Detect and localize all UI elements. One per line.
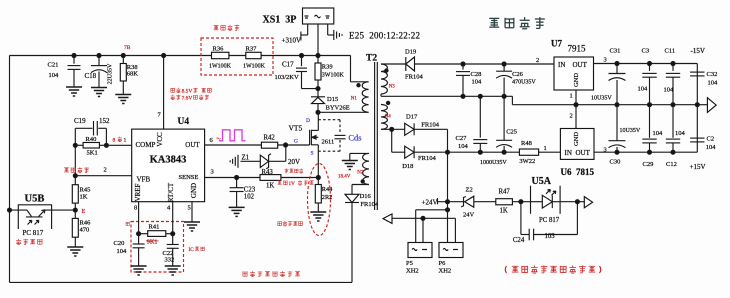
svg-text:104: 104 bbox=[675, 130, 686, 137]
svg-text:2: 2 bbox=[104, 166, 107, 173]
regulator U7 7915 bbox=[551, 39, 594, 91]
wire D17 out corner down bbox=[414, 129, 447, 152]
svg-text:KA3843: KA3843 bbox=[150, 155, 187, 166]
pin labels U4 bbox=[104, 137, 214, 212]
svg-text:1W100K: 1W100K bbox=[243, 64, 266, 70]
resistor R42 bbox=[261, 135, 277, 149]
svg-text:104: 104 bbox=[664, 87, 675, 94]
wire pin3 SENSE line bbox=[205, 177, 319, 179]
ground under C20 bbox=[131, 266, 147, 275]
svg-text:Cds: Cds bbox=[348, 132, 361, 142]
annotation 电压反馈 red bbox=[64, 167, 89, 173]
svg-text:10U35V: 10U35V bbox=[620, 128, 641, 134]
wire +15V rail bbox=[594, 147, 697, 154]
svg-text:R47: R47 bbox=[499, 189, 511, 196]
svg-text:N2: N2 bbox=[357, 170, 364, 175]
svg-text:R48: R48 bbox=[521, 140, 532, 147]
svg-text:OUT: OUT bbox=[576, 149, 591, 157]
optocoupler U5A PC817 bbox=[531, 176, 578, 224]
capacitor C24 103 bridge bbox=[513, 202, 578, 244]
wire D19 to U7 IN bbox=[415, 57, 555, 64]
svg-text:C11: C11 bbox=[665, 48, 676, 55]
svg-text:C18: C18 bbox=[85, 72, 97, 80]
svg-text:N4: N4 bbox=[385, 115, 392, 120]
capacitor C20 104 bbox=[114, 240, 145, 266]
svg-text:C29: C29 bbox=[643, 161, 654, 168]
junction dot gate node bbox=[284, 143, 288, 147]
svg-text:C28: C28 bbox=[471, 71, 482, 78]
capacitor C17 103/2KV bbox=[275, 56, 319, 89]
ground under C18 bbox=[91, 88, 107, 97]
wire N3 bottom center tap bbox=[381, 94, 512, 96]
svg-text:104: 104 bbox=[706, 144, 717, 151]
wire U7 GND to common bbox=[570, 90, 577, 105]
svg-text:1000U35V: 1000U35V bbox=[480, 160, 507, 166]
svg-text:3: 3 bbox=[604, 147, 607, 154]
svg-text:U5A: U5A bbox=[532, 176, 552, 187]
svg-text:Z2: Z2 bbox=[466, 187, 473, 194]
wire COMP pin1 bbox=[106, 144, 131, 146]
transformer core bbox=[375, 62, 378, 210]
ground under C23 bbox=[229, 207, 245, 216]
resistor R44 2R2 current sense bbox=[315, 185, 333, 204]
svg-text:C31: C31 bbox=[610, 48, 621, 55]
phasing dot N1 bbox=[357, 84, 360, 87]
svg-text:G: G bbox=[294, 139, 298, 145]
annotation 稳压作用 red bbox=[16, 239, 42, 245]
svg-text:1W100K: 1W100K bbox=[209, 64, 232, 70]
svg-text:2611: 2611 bbox=[322, 139, 335, 146]
diode D16 FR104 bbox=[345, 193, 379, 208]
resistor R40 5K1 bbox=[75, 136, 106, 157]
svg-text:1K: 1K bbox=[266, 182, 274, 189]
svg-text:PC 817: PC 817 bbox=[23, 229, 44, 237]
capacitor C22 332 bbox=[163, 245, 179, 267]
svg-text:104: 104 bbox=[49, 72, 60, 79]
junction dots 24V bbox=[446, 200, 580, 212]
zener Z2 24V bbox=[461, 187, 496, 219]
svg-text:2: 2 bbox=[570, 113, 573, 120]
svg-text:104: 104 bbox=[117, 248, 128, 255]
svg-text:7915: 7915 bbox=[568, 44, 587, 54]
svg-text:470: 470 bbox=[80, 227, 90, 234]
wire +24V drop from rectifier bbox=[447, 152, 449, 242]
svg-text:C25: C25 bbox=[506, 129, 517, 136]
capacitor C3 104 bbox=[638, 48, 657, 105]
svg-text:VT5: VT5 bbox=[289, 124, 303, 133]
svg-text:C12: C12 bbox=[666, 161, 677, 168]
svg-text:1V: 1V bbox=[289, 181, 296, 187]
junction dots sense bbox=[235, 176, 321, 180]
svg-text:+310V: +310V bbox=[282, 37, 302, 45]
svg-text:5: 5 bbox=[188, 205, 191, 212]
annotation 启动电阻 bbox=[214, 25, 240, 31]
svg-text:D15: D15 bbox=[327, 96, 338, 103]
diode D18 FR104 bbox=[402, 146, 436, 170]
op-amp/PWM controller U4 KA3843 bbox=[132, 117, 205, 202]
capacitor C30 10U35V bbox=[609, 105, 641, 166]
wire D16 column right edge bbox=[351, 203, 353, 282]
svg-text:D: D bbox=[306, 118, 310, 124]
capacitor Cds parasitic dashed bbox=[318, 120, 340, 152]
wire VCC top rail bbox=[10, 55, 351, 57]
junction dots comp network bbox=[73, 143, 108, 147]
capacitor C18 electrolytic 22U35V bbox=[85, 56, 114, 88]
wire 24V line to U6 IN bbox=[414, 145, 560, 152]
sideways ground Z1 bbox=[230, 155, 238, 168]
svg-text:5K1: 5K1 bbox=[87, 150, 98, 157]
resistor R48 3W22 bbox=[519, 140, 538, 165]
annotation 电流负反馈 red bbox=[278, 221, 303, 226]
resistor R37 1W100K bbox=[243, 46, 266, 70]
svg-text:R40: R40 bbox=[86, 136, 97, 143]
svg-text:C2: C2 bbox=[707, 136, 715, 143]
svg-text:R46: R46 bbox=[80, 220, 92, 227]
wire VFB pin2 bbox=[75, 145, 131, 184]
svg-text:152: 152 bbox=[99, 117, 110, 125]
svg-text:C32: C32 bbox=[707, 71, 718, 78]
wire drain node to primary bottom bbox=[318, 111, 369, 113]
svg-text:FR104: FR104 bbox=[360, 201, 378, 208]
wire pin8 VREF column bbox=[138, 202, 140, 245]
svg-text:C21: C21 bbox=[48, 62, 59, 69]
junction dots feedback bbox=[8, 174, 78, 212]
connector XS1 3P bbox=[263, 8, 334, 26]
svg-text:332: 332 bbox=[165, 257, 175, 264]
resistor R47 1K bbox=[496, 189, 531, 215]
svg-text:GND: GND bbox=[573, 132, 580, 146]
svg-text:3: 3 bbox=[604, 57, 607, 64]
chassis ground XS1 bbox=[334, 30, 342, 40]
wire +24V line bbox=[438, 201, 464, 203]
resistor R39 3W100K bbox=[315, 56, 344, 97]
junction dots snubber bbox=[300, 54, 321, 115]
output arrow U5A bbox=[584, 197, 592, 208]
svg-text:R44: R44 bbox=[322, 186, 333, 193]
svg-text:8.5V: 8.5V bbox=[182, 89, 193, 95]
label 辅助电源 teal bbox=[489, 17, 545, 29]
svg-text:E: E bbox=[82, 209, 86, 215]
svg-text:104: 104 bbox=[638, 86, 649, 93]
connector P5 XH2 bbox=[406, 243, 432, 275]
annotation 提供芯片工作电压 red bbox=[243, 271, 300, 277]
capacitor C11 104 bbox=[664, 48, 681, 105]
svg-text:D18: D18 bbox=[402, 163, 413, 170]
svg-text:R42: R42 bbox=[264, 135, 276, 142]
wire return line with arrow bbox=[392, 218, 455, 242]
wire U6 GND to common bbox=[570, 105, 577, 129]
svg-text:C23: C23 bbox=[244, 186, 256, 193]
svg-text:GND: GND bbox=[573, 73, 580, 87]
ground under R38 bbox=[115, 95, 131, 104]
svg-text:U4: U4 bbox=[178, 117, 190, 127]
svg-text:7B: 7B bbox=[124, 45, 131, 51]
capacitor C19 152 bbox=[74, 117, 110, 145]
capacitor C31 10U35V bbox=[591, 48, 626, 105]
wire pin5 GND bbox=[191, 202, 193, 222]
primary winding N1 bbox=[362, 82, 368, 112]
svg-text:C19: C19 bbox=[74, 117, 86, 125]
svg-text:1: 1 bbox=[124, 138, 127, 144]
svg-text:103: 103 bbox=[545, 233, 556, 240]
ground pin5 bbox=[184, 222, 200, 231]
startup resistors dashed red box bbox=[201, 38, 273, 75]
wire pin4 RT/CT column bbox=[172, 202, 174, 245]
svg-text:R37: R37 bbox=[246, 46, 258, 53]
svg-text:N3: N3 bbox=[389, 85, 396, 90]
svg-text:+24V: +24V bbox=[422, 198, 438, 206]
ground N2 top bbox=[342, 161, 358, 170]
svg-text:U7: U7 bbox=[551, 39, 562, 49]
svg-text:3W22: 3W22 bbox=[519, 158, 535, 165]
capacitor C2 104 bbox=[690, 136, 716, 152]
ground under R44 bbox=[310, 212, 326, 221]
connector P6 XH2 bbox=[439, 243, 464, 275]
svg-text:C24: C24 bbox=[513, 237, 525, 244]
svg-text:VCC: VCC bbox=[156, 132, 164, 147]
resistor R45 1K bbox=[72, 185, 90, 203]
svg-text:1: 1 bbox=[570, 93, 573, 100]
svg-text:IN: IN bbox=[565, 149, 572, 157]
capacitor C23 102 bbox=[230, 178, 256, 208]
svg-text:S: S bbox=[311, 150, 314, 156]
svg-text:470U35V: 470U35V bbox=[512, 80, 536, 86]
svg-text:103/2KV: 103/2KV bbox=[275, 74, 300, 81]
svg-text:22U35V: 22U35V bbox=[108, 63, 114, 84]
svg-text:7.6V: 7.6V bbox=[182, 96, 193, 102]
svg-text:COMP: COMP bbox=[136, 141, 156, 149]
svg-text:VFB: VFB bbox=[137, 175, 151, 183]
svg-text:Z1: Z1 bbox=[242, 155, 250, 162]
wire P5 feed line bbox=[416, 210, 448, 243]
svg-text:T2: T2 bbox=[366, 54, 377, 64]
svg-text:C30: C30 bbox=[610, 159, 621, 166]
secondary winding N4 bbox=[381, 105, 387, 130]
svg-text:IN: IN bbox=[558, 61, 565, 69]
svg-text:R41: R41 bbox=[149, 223, 160, 230]
ground under C21 bbox=[66, 87, 82, 96]
zener Z1 20V bbox=[241, 145, 301, 169]
resistor R46 470 bbox=[72, 218, 91, 237]
annotation 单端反激式开关电源 red bbox=[505, 265, 601, 273]
svg-text:SENSE: SENSE bbox=[179, 174, 199, 181]
svg-text:3: 3 bbox=[211, 168, 214, 175]
phasing dot N2 bbox=[361, 180, 364, 183]
common rail output arrow bbox=[707, 98, 716, 113]
svg-text:C20: C20 bbox=[114, 240, 125, 247]
wire -15V rail bbox=[594, 57, 698, 64]
wire pin6 OUT to gate bbox=[205, 144, 310, 146]
wire center tap jog to common bbox=[512, 96, 697, 104]
svg-text:1K: 1K bbox=[80, 194, 88, 201]
svg-text:IC: IC bbox=[189, 247, 195, 253]
junction dots rectifier bbox=[390, 127, 450, 154]
wire N4 bottom to D17 bbox=[381, 128, 405, 130]
wire rail corner to primary top bbox=[351, 56, 369, 82]
svg-text:20V: 20V bbox=[288, 158, 300, 166]
svg-text:FR104: FR104 bbox=[421, 121, 439, 128]
svg-text:1: 1 bbox=[544, 145, 547, 152]
annotation single red char bbox=[126, 222, 129, 226]
optocoupler U5B PC817 bbox=[10, 194, 76, 238]
pin 7 VCC wire bbox=[158, 56, 164, 130]
svg-text:E25 200:12:22:22: E25 200:12:22:22 bbox=[349, 31, 420, 41]
capacitor C12 104 bbox=[666, 105, 686, 168]
annotation 取样电压 red bbox=[285, 168, 304, 173]
svg-text:FR104: FR104 bbox=[405, 74, 423, 81]
svg-text:FR104: FR104 bbox=[418, 155, 436, 162]
svg-text:68K: 68K bbox=[127, 71, 139, 78]
svg-text:102: 102 bbox=[244, 193, 255, 200]
junction dots output bank bbox=[615, 62, 699, 155]
resistor R43 1K bbox=[260, 169, 281, 190]
wire R46 to ground bbox=[74, 237, 76, 247]
IC oscillation dashed red box bbox=[131, 222, 184, 273]
waveform PWM magenta bbox=[219, 130, 246, 141]
svg-text:D17: D17 bbox=[406, 113, 418, 120]
svg-text:2: 2 bbox=[536, 57, 539, 64]
diode D15 BYV26E bbox=[311, 96, 350, 112]
wire XS1 right pin to chassis ground bbox=[328, 24, 334, 35]
phasing dot N3 bbox=[385, 69, 388, 72]
ground under R46 bbox=[67, 247, 83, 256]
wire XS1 left pin to +310V tick bbox=[301, 24, 308, 41]
svg-text:104: 104 bbox=[472, 79, 483, 86]
annotation VCC threshold red bbox=[171, 88, 181, 93]
wire bottom return rail bbox=[10, 281, 353, 283]
wire N2 top to ground bbox=[350, 153, 369, 160]
svg-text:U6 7815: U6 7815 bbox=[561, 167, 595, 177]
svg-text:R43: R43 bbox=[262, 169, 274, 176]
secondary winding N3 bbox=[381, 64, 387, 94]
annotation 7B red bbox=[124, 45, 131, 51]
svg-text:104: 104 bbox=[653, 130, 664, 137]
svg-text:+15V: +15V bbox=[690, 163, 706, 171]
svg-text:-15V: -15V bbox=[691, 47, 705, 55]
svg-text:N1: N1 bbox=[351, 97, 358, 102]
svg-text:1K: 1K bbox=[500, 208, 508, 215]
wire source to sense node bbox=[317, 155, 319, 185]
svg-text:C26: C26 bbox=[512, 71, 524, 78]
svg-text:10U35V: 10U35V bbox=[591, 96, 612, 102]
resistor R41 9K1 bbox=[139, 223, 173, 245]
wire N2 bottom to D16 bbox=[352, 185, 369, 195]
svg-text:XH2: XH2 bbox=[439, 268, 452, 275]
svg-text:OUT: OUT bbox=[573, 61, 588, 69]
svg-text:OUT: OUT bbox=[185, 141, 200, 149]
svg-text:R45: R45 bbox=[80, 187, 91, 194]
capacitor C25 1000U35V electrolytic bbox=[480, 96, 517, 166]
wire left border bbox=[9, 56, 11, 283]
svg-text:104: 104 bbox=[458, 143, 469, 150]
ground under C22 bbox=[165, 266, 181, 275]
phasing dot N4 bbox=[387, 101, 390, 104]
wire N3 top to D19 bbox=[381, 63, 406, 65]
feedback winding N2 bbox=[363, 153, 369, 184]
svg-text:BYV26E: BYV26E bbox=[326, 105, 350, 112]
svg-text:8: 8 bbox=[113, 138, 116, 144]
svg-text:D16: D16 bbox=[360, 193, 372, 200]
svg-text:9K1: 9K1 bbox=[147, 238, 158, 245]
svg-text:8: 8 bbox=[134, 205, 137, 212]
wire right column bbox=[696, 64, 698, 153]
svg-text:XH2: XH2 bbox=[406, 268, 419, 275]
capacitor C21 bbox=[48, 56, 81, 88]
svg-text:P5: P5 bbox=[406, 260, 413, 267]
wire R44 to ground bbox=[317, 203, 319, 212]
transistor VT5 MOSFET 2611 bbox=[289, 112, 335, 156]
junction dots filters bbox=[461, 62, 506, 154]
svg-text:104: 104 bbox=[708, 80, 719, 87]
diode D17 FR104 bbox=[405, 113, 440, 135]
annotation 大于1V时保护 red bbox=[278, 181, 288, 185]
svg-text:VREF: VREF bbox=[134, 183, 142, 201]
regulator U6 7815 bbox=[560, 129, 594, 178]
svg-text:18.4V: 18.4V bbox=[338, 175, 351, 180]
svg-text:R39: R39 bbox=[322, 63, 333, 70]
svg-text:C27: C27 bbox=[456, 135, 468, 142]
capacitor C27 104 bbox=[456, 96, 488, 152]
capacitor C32 104 bbox=[690, 71, 718, 87]
svg-text:XS1 3P: XS1 3P bbox=[263, 15, 297, 26]
wire R45-R46 junction bbox=[74, 203, 76, 218]
svg-text:D19: D19 bbox=[405, 49, 416, 56]
svg-text:R36: R36 bbox=[213, 46, 225, 53]
capacitor C28 104 bbox=[456, 64, 482, 96]
svg-text:P6: P6 bbox=[439, 260, 447, 267]
svg-text:C17: C17 bbox=[282, 61, 294, 69]
svg-text:RT/CT: RT/CT bbox=[167, 182, 175, 202]
current feedback dashed red ellipse bbox=[308, 164, 331, 236]
resistor R38 68K bbox=[120, 56, 138, 95]
svg-text:GND: GND bbox=[190, 183, 198, 198]
svg-text:3W100K: 3W100K bbox=[322, 72, 345, 78]
svg-text:PC 817: PC 817 bbox=[539, 217, 560, 224]
wire XS1 middle pin down to rail bbox=[317, 24, 319, 56]
diode D19 FR104 bbox=[405, 49, 423, 81]
capacitor C26 470U35V electrolytic bbox=[496, 64, 536, 96]
resistor R36 1W100K bbox=[209, 46, 232, 70]
capacitor C29 104 bbox=[642, 105, 663, 168]
return arrow left bbox=[383, 214, 392, 224]
junction dots R41 bbox=[137, 232, 175, 236]
wire branch to D18 bbox=[392, 129, 405, 152]
svg-text:U5B: U5B bbox=[25, 194, 45, 205]
svg-text:24V: 24V bbox=[463, 212, 475, 219]
junction dots VCC rail bbox=[72, 54, 166, 58]
svg-text:C3: C3 bbox=[642, 48, 650, 55]
